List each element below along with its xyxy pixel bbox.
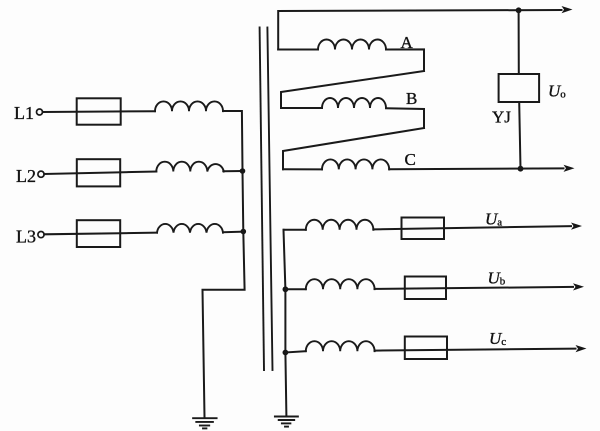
svg-text:L2: L2 bbox=[16, 166, 36, 186]
svg-text:Uc: Uc bbox=[489, 329, 506, 348]
svg-text:YJ: YJ bbox=[492, 108, 511, 127]
fuse FU2 bbox=[77, 159, 120, 186]
terminal L3 bbox=[38, 232, 44, 238]
wire bbox=[44, 233, 157, 235]
wire bbox=[386, 108, 424, 128]
ground secondary bbox=[275, 417, 298, 427]
wire zigzag B-C bbox=[283, 128, 424, 169]
svg-text:Ub: Ub bbox=[488, 269, 506, 288]
wire secondary bus bbox=[284, 230, 287, 416]
wire bbox=[375, 287, 574, 289]
wire bbox=[223, 231, 243, 234]
arrow Uc bbox=[576, 345, 587, 352]
svg-text:Uo: Uo bbox=[548, 82, 566, 101]
terminal L1 bbox=[37, 109, 43, 115]
wire bbox=[44, 172, 156, 175]
inductor L2 coil bbox=[156, 162, 224, 172]
wire top rail bbox=[278, 10, 561, 50]
inductor L1 coil bbox=[155, 101, 223, 111]
wire bbox=[278, 49, 318, 51]
wire bbox=[284, 229, 306, 231]
terminal L2 bbox=[38, 171, 44, 177]
fuse FUc bbox=[405, 337, 447, 360]
inductor c bbox=[306, 341, 375, 351]
wire YJ top bbox=[518, 10, 520, 74]
node Uc junction bbox=[283, 350, 289, 356]
wire bbox=[375, 349, 576, 351]
wire bbox=[386, 49, 424, 71]
wire zigzag A-B bbox=[281, 71, 424, 108]
svg-text:Ua: Ua bbox=[485, 210, 502, 229]
fuse FU1 bbox=[77, 98, 121, 124]
wire bbox=[389, 167, 563, 170]
winding C bbox=[322, 159, 389, 169]
transformer core line 2 bbox=[267, 28, 272, 371]
wire YJ bottom bbox=[519, 102, 520, 169]
svg-text:C: C bbox=[405, 150, 416, 169]
arrow Ua bbox=[571, 223, 582, 230]
svg-text:B: B bbox=[406, 89, 417, 108]
arrow top rail bbox=[562, 6, 573, 13]
node L2 junction bbox=[240, 168, 246, 174]
node Ub junction bbox=[283, 286, 289, 292]
inductor a bbox=[306, 220, 374, 230]
arrow Ub bbox=[573, 283, 584, 290]
wire bbox=[373, 226, 571, 229]
relay YJ bbox=[499, 74, 539, 102]
transformer core line 1 bbox=[260, 28, 264, 371]
inductor b bbox=[306, 279, 375, 289]
wire bbox=[283, 168, 322, 170]
wire primary bus bbox=[203, 171, 245, 417]
node top rail junction bbox=[516, 7, 522, 13]
node C rail junction bbox=[518, 166, 524, 172]
wire bbox=[285, 351, 305, 352]
node L3 junction bbox=[241, 229, 247, 235]
wire bbox=[285, 288, 305, 290]
wire bbox=[223, 111, 243, 171]
wire bbox=[281, 107, 322, 109]
ground primary bbox=[193, 418, 217, 428]
winding B bbox=[322, 98, 386, 108]
fuse FUb bbox=[405, 277, 446, 300]
wire bbox=[43, 110, 155, 113]
inductor L3 coil bbox=[157, 224, 223, 233]
wire bbox=[223, 170, 242, 172]
arrow C rail bbox=[564, 165, 575, 172]
fuse FU3 bbox=[77, 220, 120, 247]
winding A bbox=[318, 40, 386, 50]
svg-text:L3: L3 bbox=[16, 227, 36, 247]
svg-text:L1: L1 bbox=[14, 103, 34, 123]
fuse FUa bbox=[402, 218, 445, 240]
